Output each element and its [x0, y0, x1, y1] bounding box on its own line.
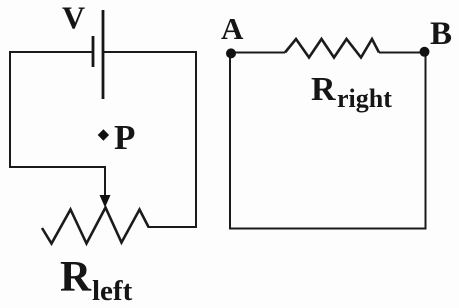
- wire A to resistor (right loop): [231, 52, 285, 54]
- svg-text:P: P: [114, 118, 135, 157]
- svg-text:R: R: [311, 71, 336, 108]
- wire left vertical (right loop): [229, 53, 231, 229]
- battery V short plate: [92, 36, 95, 67]
- wire right vertical (left loop): [195, 51, 197, 227]
- node P diamond: [98, 129, 109, 140]
- svg-text:R: R: [60, 254, 92, 301]
- potentiometer R_left zigzag: [42, 208, 149, 244]
- svg-text:right: right: [337, 84, 392, 113]
- node A dot: [226, 48, 236, 58]
- battery V long plate: [102, 10, 105, 99]
- svg-text:V: V: [62, 0, 85, 36]
- potentiometer wiper arrow stem: [104, 166, 106, 197]
- potentiometer wiper arrowhead: [100, 195, 111, 208]
- svg-text:A: A: [221, 11, 244, 46]
- wire bottom-left (left loop): [9, 166, 105, 168]
- wire left vertical (left loop): [9, 52, 11, 167]
- svg-text:left: left: [92, 275, 133, 307]
- wire right vertical (right loop): [425, 52, 427, 229]
- node B dot: [420, 47, 430, 57]
- wire bottom (right loop): [229, 228, 427, 230]
- wire top-left (left loop): [9, 51, 93, 53]
- svg-text:B: B: [430, 16, 452, 52]
- wire top-right (left loop): [103, 51, 196, 53]
- resistor R_right zigzag: [285, 39, 379, 58]
- wire resistor to B (right loop): [379, 52, 424, 54]
- wire bottom-right (left loop): [148, 226, 198, 228]
